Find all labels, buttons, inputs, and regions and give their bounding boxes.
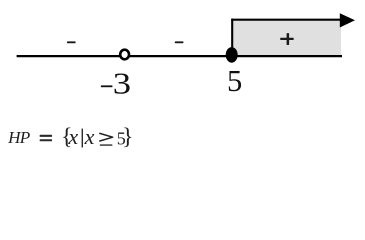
svg-text:HP: HP	[7, 128, 31, 147]
minus sign region 2	[175, 41, 184, 43]
label -3	[101, 85, 113, 87]
formula HP = {x|x >= 5}	[7, 124, 133, 150]
shaded solution region x >= 5	[232, 19, 341, 57]
arrowhead	[340, 13, 355, 27]
minus sign region 1	[67, 41, 76, 43]
svg-text:}: }	[122, 124, 133, 150]
filled circle at 5	[226, 47, 238, 63]
svg-text:x: x	[67, 124, 78, 149]
number line	[17, 55, 342, 57]
region left border	[231, 19, 233, 50]
svg-text:x: x	[84, 124, 95, 149]
open circle at -3	[120, 50, 129, 60]
svg-text:5: 5	[227, 64, 242, 98]
svg-text:3: 3	[113, 67, 131, 100]
plus sign	[280, 33, 294, 45]
region top border / arrow shaft	[231, 19, 344, 21]
